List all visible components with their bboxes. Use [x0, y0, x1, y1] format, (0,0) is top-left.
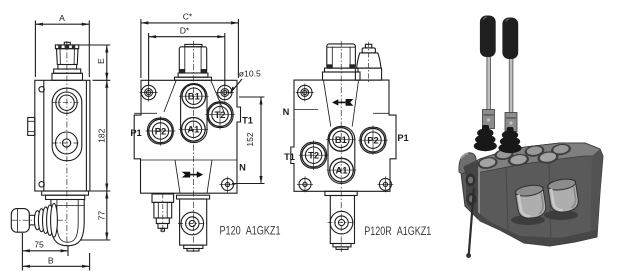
valve body block — [461, 143, 604, 246]
dimension 152 — [239, 96, 265, 98]
svg-text:P120 A1GKZ1: P120 A1GKZ1 — [220, 226, 281, 238]
bottom circle port — [56, 132, 78, 154]
bolt hole top-left — [296, 84, 314, 102]
svg-text:P2: P2 — [155, 125, 166, 136]
top bosses: near row — [477, 150, 560, 170]
svg-text:A1: A1 — [336, 165, 348, 176]
joystick neck — [29, 215, 35, 225]
right joint — [505, 113, 517, 132]
svg-text:B1: B1 — [188, 91, 200, 102]
left end face — [464, 160, 480, 221]
dimension E / 182 / 77 extension lines — [79, 44, 110, 46]
relief valve dome — [357, 53, 381, 68]
port T2 — [208, 103, 232, 127]
lower body shading — [467, 205, 597, 246]
centerline vertical spool axis — [66, 41, 68, 248]
right grip — [502, 18, 518, 60]
bolt hole bottom-right — [220, 177, 236, 193]
top cap body — [57, 49, 79, 65]
joystick knob — [11, 209, 29, 233]
centerline spool axis — [340, 41, 342, 252]
front cap left — [515, 184, 548, 220]
internal boss lines — [373, 112, 389, 114]
bell housing — [51, 200, 84, 246]
centerline spool axis — [192, 41, 194, 252]
flow arrow (left) — [332, 99, 353, 106]
bottom flange — [42, 191, 89, 195]
bolt hole bottom-left — [297, 176, 313, 192]
top face — [464, 143, 601, 175]
svg-text:77: 77 — [96, 211, 106, 221]
svg-text:B: B — [48, 256, 54, 266]
svg-text:B1: B1 — [335, 134, 347, 145]
right end face — [590, 149, 603, 239]
joystick bellows — [34, 211, 40, 230]
cap body — [327, 44, 356, 68]
svg-text:P120R A1GKZ1: P120R A1GKZ1 — [364, 226, 431, 238]
boss contour around circles — [52, 88, 82, 161]
svg-text:ø10.5: ø10.5 — [239, 69, 261, 79]
dimension A — [34, 21, 36, 78]
left port boss — [28, 118, 35, 136]
valve body outline — [134, 80, 240, 193]
svg-text:A1: A1 — [187, 124, 199, 135]
leader o10.5 — [230, 79, 242, 94]
dimension 75 — [21, 233, 23, 271]
left boot — [474, 125, 497, 151]
hanging lever rod — [469, 188, 474, 254]
port P2 — [149, 119, 173, 143]
cap body — [179, 47, 206, 73]
svg-text:T2: T2 — [308, 150, 319, 161]
bottom port fitting — [177, 195, 210, 199]
dimension C* — [140, 19, 142, 78]
bolt hole top-left — [140, 84, 158, 102]
internal boss lines — [134, 112, 157, 114]
port A1 — [330, 158, 354, 182]
svg-text:D*: D* — [180, 26, 190, 36]
svg-text:N: N — [239, 163, 246, 173]
left lever shaft — [487, 50, 491, 114]
cap flange — [54, 69, 81, 73]
bolt hole top-right — [216, 84, 234, 102]
port bosses — [181, 84, 207, 143]
svg-text:182: 182 — [96, 128, 106, 143]
svg-text:T2: T2 — [215, 109, 226, 120]
bolt hole bottom-right — [377, 176, 393, 192]
svg-text:152: 152 — [245, 132, 255, 147]
right lever shaft — [509, 53, 513, 117]
svg-text:P1: P1 — [130, 128, 141, 138]
dimension D* — [148, 33, 150, 85]
top circle port — [56, 92, 77, 113]
top cap tab — [64, 42, 70, 45]
front face section seams — [506, 168, 508, 232]
bottom relief valve — [152, 194, 174, 202]
port A1 — [182, 118, 206, 142]
cap top step — [185, 44, 202, 46]
top bosses: far row — [494, 143, 572, 162]
left joint — [483, 110, 495, 129]
port bosses — [328, 126, 355, 183]
svg-text:T1: T1 — [284, 152, 295, 162]
svg-text:P1: P1 — [397, 133, 408, 143]
bottom port fitting — [325, 191, 357, 195]
valve body outline — [291, 80, 396, 191]
svg-text:C*: C* — [183, 11, 193, 21]
small bolt hole bottom-left — [39, 182, 44, 187]
svg-text:P2: P2 — [367, 135, 378, 146]
relief valve knob — [365, 44, 371, 48]
svg-text:N: N — [283, 107, 290, 117]
port B1 — [329, 128, 353, 152]
left grip — [480, 16, 496, 58]
port P2 — [361, 128, 385, 152]
port B1 — [182, 84, 206, 108]
port T2 — [302, 143, 326, 167]
svg-text:E: E — [96, 58, 106, 64]
svg-text:A: A — [59, 13, 65, 23]
cap shadows — [511, 215, 545, 225]
valve body (side) — [35, 80, 90, 191]
dimension B — [89, 253, 91, 271]
right boot — [498, 127, 521, 153]
small bolt hole top-left — [39, 87, 44, 92]
left face ports — [466, 174, 476, 186]
svg-text:75: 75 — [34, 240, 44, 250]
top-left end hump — [459, 153, 476, 174]
top cap knurl band — [55, 45, 78, 49]
cap flange — [325, 68, 359, 72]
centerline joystick axis — [11, 219, 68, 221]
port centerlines — [146, 96, 235, 146]
cap base — [58, 65, 77, 70]
relief valve centerline — [368, 42, 370, 84]
cap flange — [178, 73, 208, 77]
front cap right — [547, 177, 580, 213]
svg-text:T1: T1 — [242, 115, 253, 125]
port centerlines — [299, 125, 388, 170]
flow arrow (right) — [182, 171, 203, 178]
